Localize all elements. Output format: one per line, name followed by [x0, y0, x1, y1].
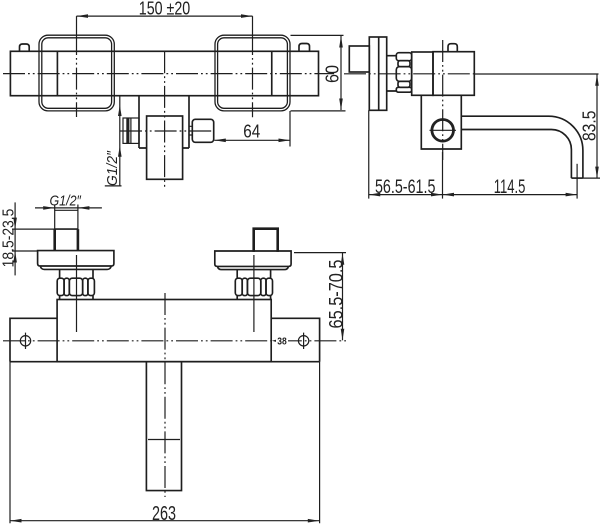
arrow 263 left: [10, 519, 22, 523]
left pipe bold part: [55, 229, 78, 251]
top tab (side): [448, 44, 457, 52]
arrow 150 right: [241, 14, 253, 18]
svg-text:83.5: 83.5: [579, 111, 599, 142]
arrow G1/2 leader up2: [118, 146, 122, 157]
inlet centerline (top view): [120, 130, 212, 132]
right handle stem line: [271, 51, 273, 95]
arrow 83.5 down: [595, 167, 599, 179]
arrow 65.5 up: [341, 253, 345, 265]
arrow 56.5 left: [369, 193, 381, 197]
G1/2 leader (top view): [105, 96, 122, 186]
arrow 38: [272, 339, 278, 342]
svg-text:60: 60: [323, 65, 343, 83]
bar centerline: [3, 73, 334, 75]
left flange: [38, 251, 114, 266]
dim 60 extensions: [291, 35, 346, 111]
dim 263 line: [10, 520, 319, 522]
arrow 263 right: [308, 519, 320, 523]
left nut: [57, 278, 64, 295]
left union stem: [60, 270, 93, 279]
arrow 60 up: [339, 36, 343, 48]
bar body: [10, 51, 318, 95]
aerator circle: [432, 120, 454, 142]
dim G1/2 ext ticks: [55, 205, 78, 211]
svg-text:263: 263: [152, 503, 176, 525]
arrow 56.5 right: [431, 193, 443, 197]
screw hole left: [20, 336, 30, 346]
dim 263 exts: [10, 362, 320, 524]
knurled ring: [396, 53, 411, 61]
neck: [387, 56, 397, 91]
ext 56.5 left: [368, 110, 370, 198]
left pipe thread line: [55, 228, 78, 230]
right pipe (bold): [254, 229, 278, 252]
right nut: [235, 278, 242, 295]
svg-text:65.5-70.5: 65.5-70.5: [326, 260, 347, 329]
wall back plate: [10, 318, 320, 361]
aerator tick (front): [148, 439, 180, 441]
nut stems: [60, 296, 271, 300]
wall plate: [369, 37, 386, 110]
dim 64 extension: [289, 111, 291, 147]
right handle centerline: [252, 16, 254, 33]
arrow G1/2 left: [43, 206, 55, 210]
arrow 114.5 left: [443, 193, 455, 197]
arrows: top view: [77, 14, 343, 157]
arrow 114.5 right: [566, 193, 578, 197]
dim 18.5-23.5 exts: [12, 229, 55, 251]
dim 83.5 line: [596, 74, 598, 178]
outlet housing: [139, 96, 189, 148]
left handle stem line: [56, 51, 58, 95]
spout (front): [146, 362, 181, 491]
spout vertical centerline: [442, 40, 444, 160]
side knob: [349, 46, 369, 72]
svg-text:G1/2″: G1/2″: [49, 194, 81, 210]
side centerline: [344, 73, 474, 75]
left handle outer: [39, 35, 114, 111]
svg-text:150 ±20: 150 ±20: [139, 0, 190, 19]
arrow 65.5 down: [341, 329, 345, 341]
arrow 64 left: [214, 139, 226, 143]
dim 83.5 ext bottom: [583, 177, 600, 179]
right handle outer: [215, 35, 290, 111]
right union stem: [237, 270, 270, 279]
main body (side): [433, 52, 474, 96]
arrow G1/2 leader up1: [118, 105, 122, 116]
text 38: [276, 335, 288, 347]
left pipe thin part: [55, 210, 78, 229]
right handle inner: [218, 38, 288, 109]
svg-text:18.5-23.5: 18.5-23.5: [1, 209, 18, 268]
dim G1/2 line (front): [35, 207, 102, 209]
side knob (top view): [192, 119, 213, 142]
arrow 18.5 down: [13, 218, 17, 230]
front main centerline: [3, 340, 346, 342]
right union centerline: [253, 255, 255, 332]
arrow 64 right: [279, 139, 291, 143]
arrow 150 left: [77, 14, 89, 18]
dim 60 line: [340, 36, 342, 110]
spout end cap: [571, 177, 583, 179]
svg-text:56.5-61.5: 56.5-61.5: [375, 176, 436, 198]
spout block (top view): [147, 116, 183, 179]
front body: [57, 300, 271, 362]
left handle inner: [42, 38, 112, 109]
right top tab: [299, 44, 310, 52]
dim 65.5-70.5 line: [342, 253, 344, 340]
spout block (side): [421, 95, 461, 149]
svg-text:114.5: 114.5: [494, 176, 526, 198]
outlet centerline (top view): [164, 51, 166, 188]
screw hole right: [298, 336, 308, 346]
left top tab: [20, 44, 30, 51]
arrow G1/2 right: [78, 206, 90, 210]
dim 64 line: [214, 139, 290, 141]
dim 65.5-70.5 ext top: [294, 252, 346, 254]
left handle centerline: [76, 16, 78, 33]
right flange: [215, 251, 291, 266]
svg-text:38: 38: [277, 335, 287, 347]
ext spout end: [576, 164, 578, 199]
left union centerline: [76, 255, 78, 332]
spout tube inner: [461, 130, 571, 179]
dims bottom line: [369, 194, 577, 196]
screw hole ticks: [26, 333, 304, 349]
front spout centerline: [164, 293, 166, 497]
spout tube outer: [461, 116, 583, 178]
ext center: [442, 152, 444, 199]
svg-text:64: 64: [243, 122, 260, 142]
cartridge housing: [412, 52, 433, 95]
arrow 18.5 up: [13, 251, 17, 263]
arrow 60 down: [339, 99, 343, 111]
svg-text:G1/2″: G1/2″: [104, 150, 121, 186]
side centerline extension: [474, 73, 598, 75]
dim 18.5-23.5 line: [14, 202, 16, 275]
inlet connector: [123, 118, 139, 143]
dim 150+-20 line: [77, 15, 253, 17]
arrow 83.5 up: [595, 74, 599, 86]
circle tick: [430, 129, 457, 131]
